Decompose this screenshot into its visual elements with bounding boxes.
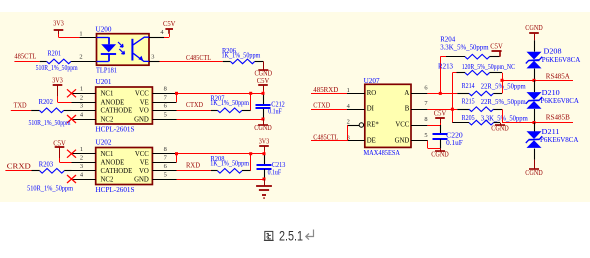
svg-text:P6KE6V8CA: P6KE6V8CA bbox=[540, 136, 579, 144]
svg-text:0.1uF: 0.1uF bbox=[268, 108, 282, 116]
svg-text:2: 2 bbox=[80, 155, 83, 162]
svg-text:RE*: RE* bbox=[367, 121, 380, 128]
svg-text:ANODE: ANODE bbox=[101, 99, 125, 106]
svg-text:1K_1%_50ppm: 1K_1%_50ppm bbox=[210, 159, 249, 167]
svg-text:GND: GND bbox=[395, 137, 410, 144]
svg-text:3.3K_5%_50ppm: 3.3K_5%_50ppm bbox=[440, 44, 489, 52]
svg-text:3V3: 3V3 bbox=[259, 139, 270, 146]
svg-text:6: 6 bbox=[164, 103, 167, 110]
svg-text:C5V: C5V bbox=[434, 111, 447, 118]
svg-text:D208: D208 bbox=[544, 48, 563, 56]
svg-text:D210: D210 bbox=[542, 89, 561, 97]
svg-text:120R_5%_50ppm_NC: 120R_5%_50ppm_NC bbox=[462, 63, 516, 71]
svg-text:VCC: VCC bbox=[135, 151, 149, 158]
svg-text:U207: U207 bbox=[364, 77, 381, 85]
svg-text:R205: R205 bbox=[462, 114, 475, 122]
svg-text:RO: RO bbox=[367, 90, 377, 97]
svg-text:B: B bbox=[405, 106, 410, 113]
svg-text:2.5.1: 2.5.1 bbox=[279, 229, 303, 244]
svg-text:CGND: CGND bbox=[525, 170, 543, 177]
svg-text:GND: GND bbox=[134, 176, 149, 183]
svg-text:D211: D211 bbox=[542, 128, 561, 136]
svg-text:5: 5 bbox=[164, 171, 167, 178]
svg-text:A: A bbox=[404, 90, 409, 97]
svg-text:485CTL: 485CTL bbox=[14, 53, 36, 61]
svg-text:6: 6 bbox=[424, 84, 427, 91]
svg-text:510R_1%_50ppm: 510R_1%_50ppm bbox=[36, 64, 78, 72]
svg-text:C485CTL: C485CTL bbox=[186, 54, 211, 62]
svg-text:CRXD: CRXD bbox=[7, 162, 31, 170]
svg-text:RXD: RXD bbox=[186, 161, 200, 169]
svg-text:0.1uF: 0.1uF bbox=[268, 168, 282, 176]
svg-text:P6KE6V8CA: P6KE6V8CA bbox=[542, 56, 581, 64]
svg-text:VE: VE bbox=[140, 160, 149, 167]
svg-text:C5V: C5V bbox=[257, 78, 270, 85]
svg-text:5: 5 bbox=[164, 111, 167, 118]
svg-text:R215: R215 bbox=[462, 97, 475, 105]
svg-text:R201: R201 bbox=[48, 50, 62, 58]
svg-text:U200: U200 bbox=[96, 26, 113, 34]
svg-text:5: 5 bbox=[424, 132, 427, 139]
svg-text:ANODE: ANODE bbox=[101, 160, 125, 167]
svg-text:R204: R204 bbox=[440, 36, 455, 44]
svg-text:6: 6 bbox=[164, 163, 167, 170]
svg-text:VCC: VCC bbox=[135, 91, 149, 98]
svg-text:VO: VO bbox=[139, 168, 149, 175]
svg-text:P6KE6V8CA: P6KE6V8CA bbox=[541, 97, 580, 105]
svg-text:1: 1 bbox=[80, 86, 83, 93]
svg-text:8: 8 bbox=[424, 116, 427, 123]
svg-text:VO: VO bbox=[139, 108, 149, 115]
svg-text:CTXD: CTXD bbox=[186, 101, 203, 109]
svg-text:R214: R214 bbox=[462, 82, 475, 90]
svg-text:0.1uF: 0.1uF bbox=[446, 139, 463, 147]
svg-text:R213: R213 bbox=[438, 62, 453, 70]
svg-text:CGND: CGND bbox=[525, 24, 543, 32]
svg-text:3: 3 bbox=[80, 163, 83, 170]
svg-text:DI: DI bbox=[367, 106, 375, 113]
svg-text:3: 3 bbox=[80, 103, 83, 110]
svg-text:1: 1 bbox=[347, 87, 350, 94]
svg-text:NC1: NC1 bbox=[101, 151, 114, 158]
svg-text:485RXD: 485RXD bbox=[313, 86, 338, 94]
svg-text:C5V: C5V bbox=[163, 21, 176, 28]
svg-text:22R_5%_50ppm: 22R_5%_50ppm bbox=[481, 82, 526, 90]
svg-text:CGND: CGND bbox=[491, 126, 509, 133]
svg-text:3.3K_5%_50ppm: 3.3K_5%_50ppm bbox=[481, 115, 529, 123]
svg-text:8: 8 bbox=[164, 146, 167, 153]
svg-text:U202: U202 bbox=[96, 138, 113, 146]
svg-text:RS485A: RS485A bbox=[546, 73, 570, 81]
svg-text:22R_5%_50ppm: 22R_5%_50ppm bbox=[481, 98, 526, 106]
svg-text:1K_1%_50ppm: 1K_1%_50ppm bbox=[210, 99, 249, 107]
svg-text:1: 1 bbox=[79, 31, 82, 38]
svg-text:DE: DE bbox=[367, 137, 376, 144]
svg-text:NC1: NC1 bbox=[101, 91, 114, 98]
svg-text:VE: VE bbox=[140, 99, 149, 106]
svg-text:CATHODE: CATHODE bbox=[101, 108, 133, 115]
svg-text:CATHODE: CATHODE bbox=[101, 168, 133, 175]
svg-text:R203: R203 bbox=[39, 160, 54, 168]
svg-text:RS485B: RS485B bbox=[546, 114, 570, 122]
svg-text:8: 8 bbox=[164, 86, 167, 93]
svg-text:NC2: NC2 bbox=[101, 116, 114, 123]
svg-text:R202: R202 bbox=[39, 98, 54, 106]
svg-text:HCPL-2601S: HCPL-2601S bbox=[96, 126, 135, 134]
svg-text:1K_1%_50ppm: 1K_1%_50ppm bbox=[222, 52, 261, 60]
svg-text:CGND: CGND bbox=[255, 71, 273, 78]
svg-text:TXD: TXD bbox=[14, 102, 27, 110]
svg-text:3: 3 bbox=[151, 53, 154, 60]
svg-text:2: 2 bbox=[80, 94, 83, 101]
svg-text:3V3: 3V3 bbox=[52, 78, 63, 85]
svg-text:VCC: VCC bbox=[395, 121, 409, 128]
svg-text:2: 2 bbox=[347, 119, 350, 126]
svg-text:CGND: CGND bbox=[254, 125, 272, 132]
svg-text:510R_1%_50ppm: 510R_1%_50ppm bbox=[27, 185, 73, 193]
svg-text:510R_1%_50ppm: 510R_1%_50ppm bbox=[29, 119, 71, 127]
svg-text:U201: U201 bbox=[96, 78, 113, 86]
svg-text:TLP181: TLP181 bbox=[96, 67, 117, 75]
svg-text:2: 2 bbox=[79, 53, 82, 60]
svg-text:CTXD: CTXD bbox=[313, 102, 330, 110]
svg-text:1: 1 bbox=[80, 146, 83, 153]
svg-text:HCPL-2601S: HCPL-2601S bbox=[96, 186, 135, 194]
svg-text:C5V: C5V bbox=[490, 44, 503, 51]
svg-text:NC2: NC2 bbox=[101, 176, 114, 183]
svg-text:3V3: 3V3 bbox=[53, 21, 64, 28]
svg-text:MAX485ESA: MAX485ESA bbox=[364, 149, 401, 157]
svg-text:CGND: CGND bbox=[431, 152, 449, 159]
svg-text:GND: GND bbox=[134, 116, 149, 123]
